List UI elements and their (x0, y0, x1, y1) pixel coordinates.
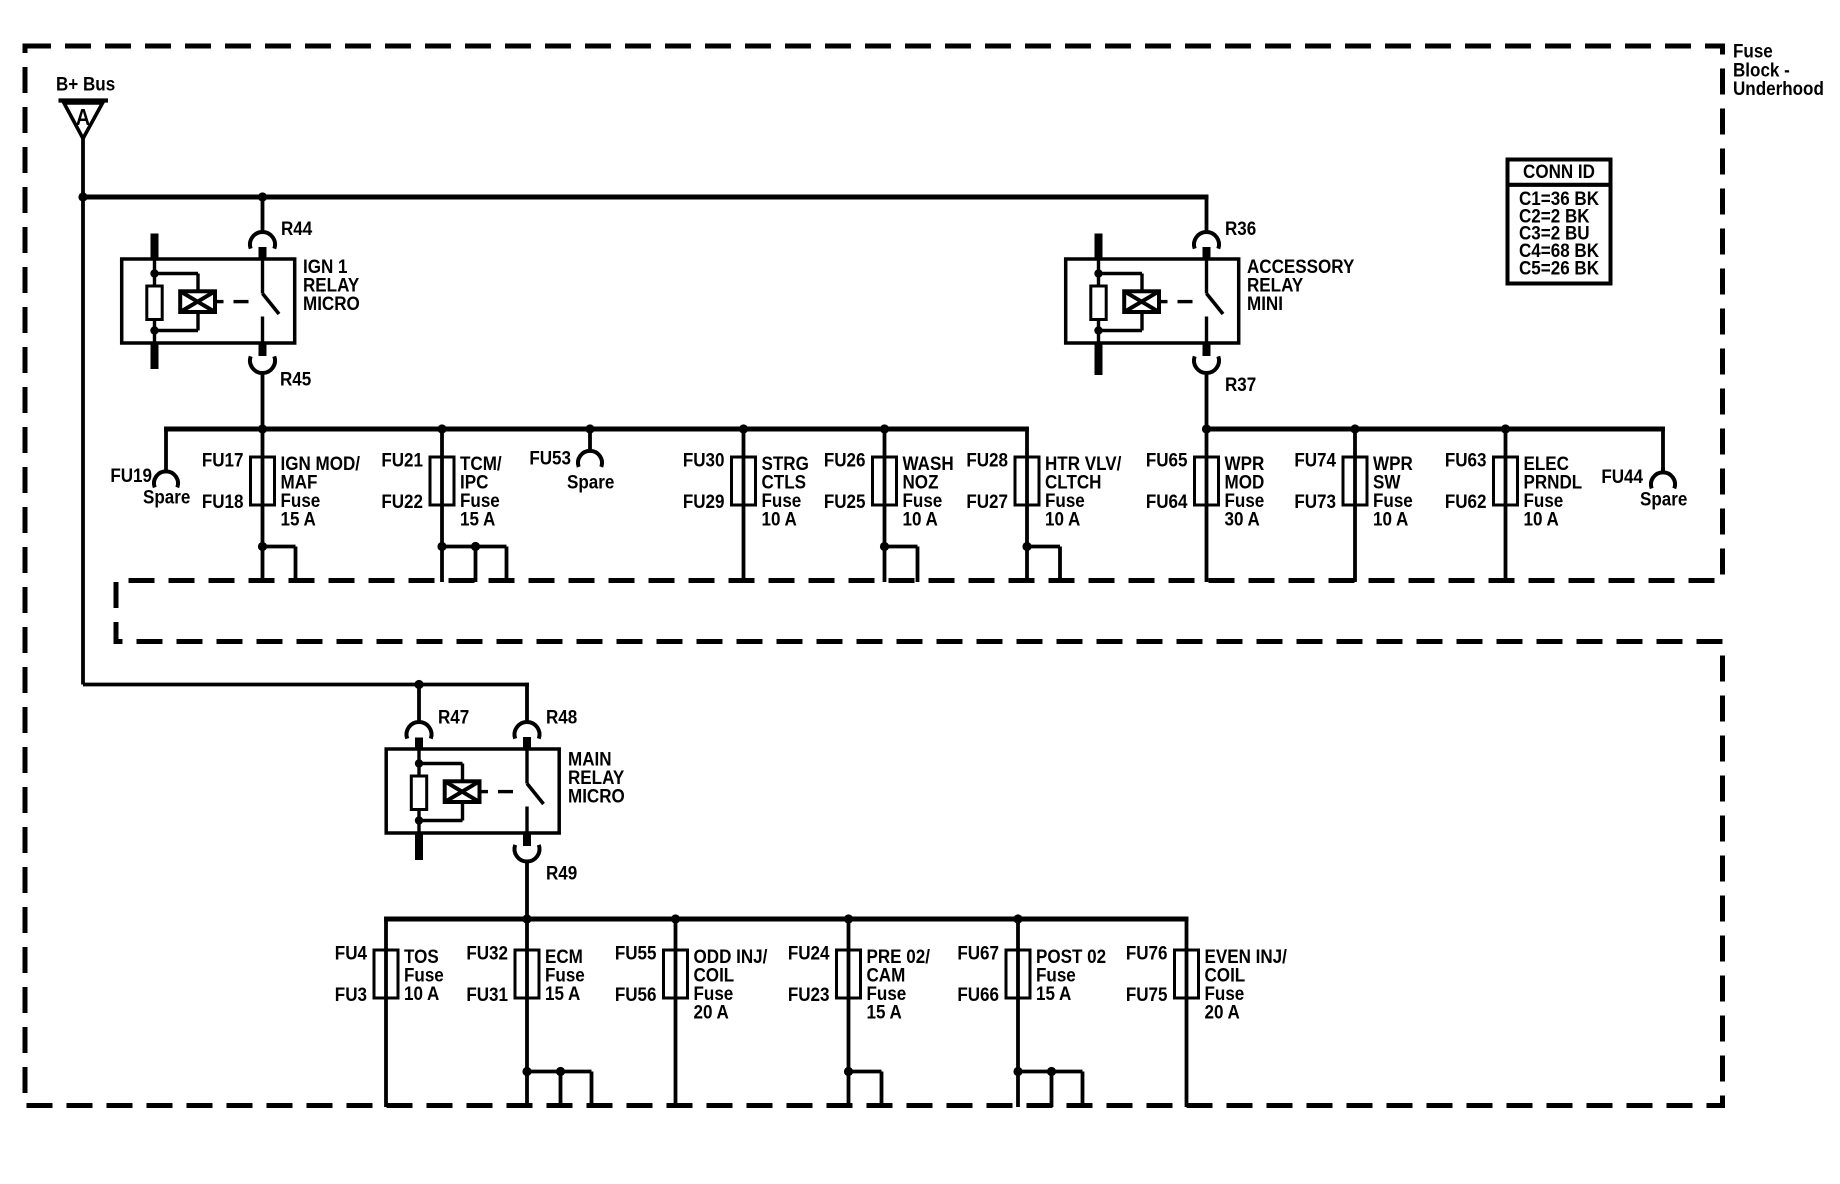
wire R49 to lower bus (525, 861, 529, 919)
svg-text:FU3: FU3 (335, 983, 367, 1005)
node junction fuse FU55 (671, 914, 680, 923)
fuse FU76/FU75 EVEN INJ/ COIL Fuse 20 A (1126, 917, 1287, 1107)
wire drop top bus to R44 (261, 197, 265, 233)
svg-text:10 A: 10 A (903, 507, 938, 529)
node junction fuse FU74 (1350, 424, 1359, 433)
node junction fuse FU63 (1501, 424, 1510, 433)
node junction fuse FU65 (1202, 424, 1211, 433)
svg-text:10 A: 10 A (404, 982, 439, 1004)
connector terminal R48 (515, 705, 578, 738)
wire B+ vertical feed down left side (81, 197, 85, 685)
svg-text:FU65: FU65 (1146, 448, 1188, 470)
node junction at R44 drop (258, 192, 267, 201)
svg-text:FU26: FU26 (824, 448, 866, 470)
node junction top bus left (78, 192, 87, 201)
fuse FU30/FU29 STRG CTLS Fuse 10 A (683, 427, 809, 582)
svg-text:FU32: FU32 (466, 941, 508, 963)
node junction fuse FU67 (1013, 914, 1022, 923)
fuse FU63/FU62 ELEC PRNDL Fuse 10 A (1445, 427, 1582, 582)
connector terminal R36 (1194, 217, 1256, 249)
svg-text:15 A: 15 A (867, 1000, 902, 1022)
svg-text:A: A (76, 104, 90, 131)
svg-text:FU21: FU21 (381, 448, 423, 470)
connector terminal R45 (250, 356, 311, 389)
node junction at R47 drop (414, 680, 423, 689)
svg-text:FU22: FU22 (381, 490, 423, 512)
svg-text:FU64: FU64 (1146, 490, 1188, 512)
svg-text:10 A: 10 A (1373, 507, 1408, 529)
wire drop to R47 (417, 685, 421, 724)
wire horizontal feed to main relay (83, 683, 529, 687)
svg-text:20 A: 20 A (694, 1000, 729, 1022)
svg-text:FU56: FU56 (615, 983, 657, 1005)
svg-text:15 A: 15 A (1036, 982, 1071, 1004)
power symbol A - B+ Bus (56, 72, 115, 138)
svg-text:FU25: FU25 (824, 490, 866, 512)
svg-text:FU76: FU76 (1126, 941, 1168, 963)
wire mid bus right end to FU44 (1661, 427, 1665, 472)
svg-text:R36: R36 (1225, 217, 1256, 239)
spare terminal FU44 (1601, 465, 1687, 510)
svg-text:10 A: 10 A (762, 507, 797, 529)
svg-text:15 A: 15 A (460, 507, 495, 529)
svg-text:R45: R45 (280, 367, 311, 389)
title label Fuse Block - Underhood (1733, 39, 1824, 99)
svg-text:FU19: FU19 (110, 464, 152, 486)
relay MAIN RELAY MICRO (386, 737, 625, 860)
fuse FU55/FU56 ODD INJ/ COIL Fuse 20 A (615, 917, 768, 1107)
svg-text:FU44: FU44 (1601, 465, 1643, 487)
wire drop to R48 (525, 683, 529, 723)
svg-text:Spare: Spare (567, 470, 614, 492)
wire drop top bus to R36 (1205, 195, 1209, 233)
connector terminal R47 (407, 705, 470, 738)
node junction fuse FU17 (258, 424, 267, 433)
fuse FU28/FU27 HTR VLV/ CLTCH Fuse 10 A (966, 427, 1121, 582)
svg-text:MINI: MINI (1247, 292, 1283, 314)
node junction fuse FU26 (880, 424, 889, 433)
fuse FU17/FU18 IGN MOD/ MAF Fuse 15 A (202, 427, 360, 582)
wire B+ feed from symbol A to top bus (81, 139, 85, 198)
svg-text:B+ Bus: B+ Bus (56, 72, 115, 94)
svg-text:MICRO: MICRO (303, 292, 360, 314)
svg-text:FU73: FU73 (1294, 490, 1336, 512)
connector terminal R37 (1194, 356, 1256, 395)
svg-text:R47: R47 (438, 705, 469, 727)
svg-text:FU62: FU62 (1445, 490, 1487, 512)
svg-text:10 A: 10 A (1045, 507, 1080, 529)
fuse FU32/FU31 ECM Fuse 15 A (466, 917, 591, 1107)
CONN ID legend table (1508, 160, 1611, 284)
svg-text:FU29: FU29 (683, 490, 725, 512)
connector terminal R49 (515, 845, 578, 884)
node junction fuse FU32 (522, 914, 531, 923)
wire R45 to mid bus (261, 373, 265, 429)
fuse FU65/FU64 WPR MOD Fuse 30 A (1146, 427, 1264, 582)
connector terminal R44 (250, 217, 313, 249)
svg-text:15 A: 15 A (545, 982, 580, 1004)
svg-text:CONN ID: CONN ID (1523, 160, 1595, 182)
fuse FU26/FU25 WASH NOZ Fuse 10 A (824, 427, 954, 582)
svg-text:10 A: 10 A (1524, 507, 1559, 529)
svg-text:FU18: FU18 (202, 490, 244, 512)
node junction fuse FU21 (437, 424, 446, 433)
svg-text:R49: R49 (546, 861, 577, 883)
fuse FU74/FU73 WPR SW Fuse 10 A (1294, 427, 1412, 582)
svg-text:Spare: Spare (1640, 487, 1687, 509)
svg-text:R44: R44 (281, 217, 313, 239)
svg-text:FU53: FU53 (529, 446, 571, 468)
svg-text:FU30: FU30 (683, 448, 725, 470)
bus mid-right horizontal (1207, 427, 1665, 432)
node junction FU53 (585, 424, 594, 433)
svg-text:FU28: FU28 (966, 448, 1008, 470)
svg-text:MICRO: MICRO (568, 784, 625, 806)
fuse FU67/FU66 POST 02 Fuse 15 A (957, 917, 1106, 1107)
svg-text:Underhood: Underhood (1733, 77, 1824, 99)
wire top B+ bus horizontal (83, 195, 1208, 200)
svg-text:FU24: FU24 (788, 941, 830, 963)
svg-text:FU67: FU67 (957, 941, 999, 963)
spare terminal FU53 (529, 427, 614, 493)
svg-text:FU74: FU74 (1294, 448, 1336, 470)
relay ACCESSORY RELAY MINI (1066, 234, 1355, 376)
svg-text:FU63: FU63 (1445, 448, 1487, 470)
fuse FU24/FU23 PRE 02/ CAM Fuse 15 A (788, 917, 930, 1107)
node junction fuse FU24 (844, 914, 853, 923)
bus mid-left horizontal (164, 427, 1029, 432)
svg-text:FU4: FU4 (335, 941, 368, 963)
fuse FU21/FU22 TCM/ IPC Fuse 15 A (381, 427, 506, 582)
svg-text:FU31: FU31 (466, 983, 508, 1005)
bus lower horizontal (384, 917, 1188, 922)
relay IGN 1 RELAY MICRO (122, 234, 360, 370)
svg-text:FU23: FU23 (788, 983, 830, 1005)
svg-text:20 A: 20 A (1205, 1000, 1240, 1022)
svg-text:15 A: 15 A (281, 507, 316, 529)
spare terminal FU19 (110, 427, 190, 508)
svg-text:Spare: Spare (143, 485, 190, 507)
svg-text:R37: R37 (1225, 373, 1256, 395)
svg-text:R48: R48 (546, 705, 577, 727)
svg-text:FU75: FU75 (1126, 983, 1168, 1005)
svg-text:FU27: FU27 (966, 490, 1008, 512)
svg-text:FU66: FU66 (957, 983, 999, 1005)
fuse FU4/FU3 TOS Fuse 10 A (335, 917, 444, 1107)
svg-text:C5=26 BK: C5=26 BK (1519, 256, 1600, 278)
svg-text:30 A: 30 A (1225, 507, 1260, 529)
node junction fuse FU30 (739, 424, 748, 433)
wire R37 to mid bus right (1205, 373, 1209, 429)
svg-text:FU17: FU17 (202, 448, 244, 470)
svg-text:FU55: FU55 (615, 941, 657, 963)
